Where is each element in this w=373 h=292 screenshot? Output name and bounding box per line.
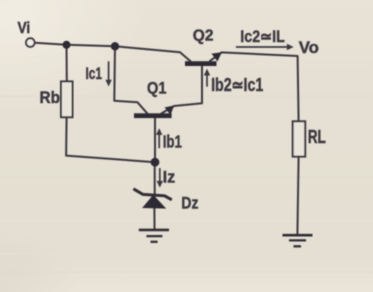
svg-text:Vo: Vo	[299, 38, 319, 57]
svg-text:Rb: Rb	[40, 89, 61, 107]
svg-text:Dz: Dz	[181, 195, 198, 213]
svg-text:Ic1: Ic1	[86, 65, 103, 83]
svg-text:Q2: Q2	[193, 27, 214, 44]
svg-text:Ib1: Ib1	[163, 133, 182, 152]
svg-text:Vi: Vi	[18, 20, 31, 37]
svg-text:RL: RL	[308, 127, 326, 148]
svg-text:Ic2≃IL: Ic2≃IL	[240, 28, 285, 46]
svg-text:Iz: Iz	[163, 168, 175, 186]
svg-text:Ib2≃Ic1: Ib2≃Ic1	[211, 75, 263, 95]
svg-text:Q1: Q1	[147, 80, 167, 98]
